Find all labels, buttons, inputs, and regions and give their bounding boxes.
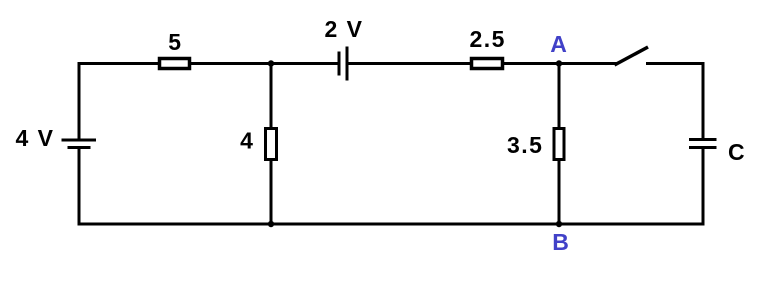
wire: middle rail — [270, 64, 273, 225]
battery V2 2V short plate — [338, 52, 341, 76]
svg-text:A: A — [550, 31, 567, 57]
battery V2 2V long plate — [346, 47, 349, 81]
battery V1 4V long plate — [62, 139, 97, 142]
svg-text:4: 4 — [240, 127, 253, 153]
svg-text:3.5: 3.5 — [507, 132, 543, 158]
wire: top-left loop (left rail upper + top wire to 2V battery) — [79, 64, 339, 141]
node A junction — [556, 60, 562, 66]
resistor R4 3.5 — [554, 129, 564, 160]
svg-text:2 V: 2 V — [325, 16, 364, 42]
resistor R3 4 — [266, 129, 277, 160]
wire: top-right (switch right contact to right rail upper) — [646, 64, 703, 140]
wire: A-B rail — [558, 64, 561, 225]
resistor R2 2.5 — [472, 59, 503, 69]
capacitor C bottom plate — [689, 146, 717, 149]
capacitor C top plate — [689, 138, 717, 141]
svg-text:2.5: 2.5 — [470, 26, 506, 52]
resistor R1 5 — [160, 59, 190, 69]
svg-text:C: C — [728, 139, 745, 165]
wire: top middle (2V battery to switch left contact) — [347, 62, 617, 65]
wire: bottom loop (left rail lower + bottom wire + right rail lower) — [79, 148, 703, 225]
svg-text:5: 5 — [168, 29, 181, 55]
node junction middle rail bottom — [268, 221, 274, 227]
node B junction — [556, 221, 562, 227]
node junction at resistor5/middle rail — [268, 60, 274, 66]
switch S1 blade — [615, 47, 649, 65]
svg-text:4 V: 4 V — [16, 125, 55, 151]
battery V1 4V short plate — [68, 146, 91, 149]
svg-text:B: B — [552, 229, 569, 255]
